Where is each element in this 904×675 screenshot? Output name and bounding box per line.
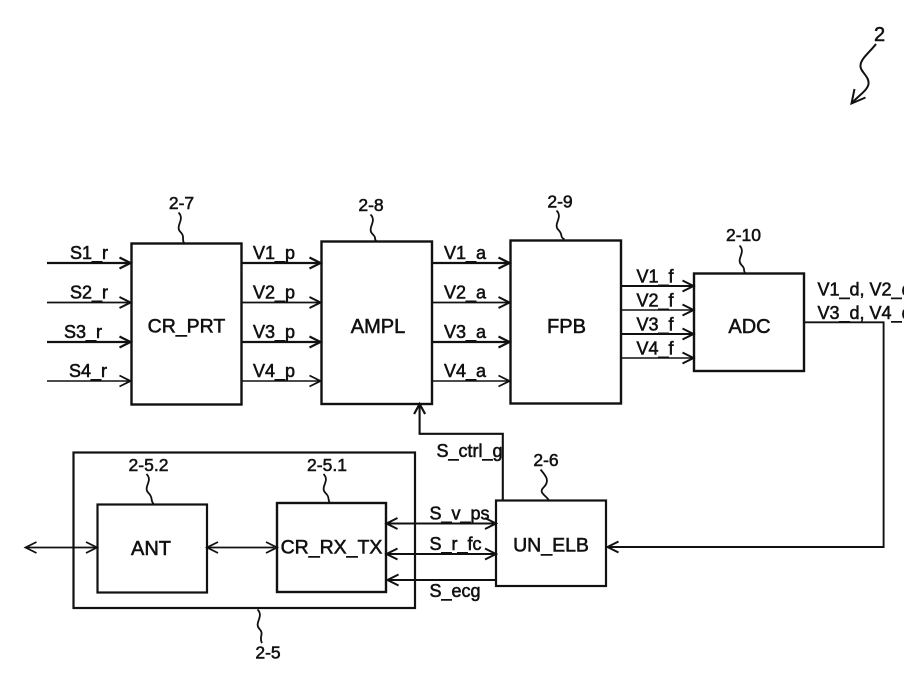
arrowhead S_v_ps left xyxy=(387,518,398,529)
arrowhead V3_p xyxy=(310,337,321,348)
svg-text:FPB: FPB xyxy=(547,316,586,338)
wire V4_a xyxy=(432,380,508,382)
leader squiggle 2-5.1 xyxy=(324,474,331,503)
wire V4_p xyxy=(242,380,320,382)
svg-text:S3_r: S3_r xyxy=(64,322,102,343)
svg-text:V3_d, V4_d: V3_d, V4_d xyxy=(818,303,904,324)
arrowhead S1_r xyxy=(120,258,131,269)
arrowhead S4_r xyxy=(120,376,131,387)
svg-text:V3_a: V3_a xyxy=(444,322,487,343)
block AMPL xyxy=(322,242,433,405)
svg-text:V2_p: V2_p xyxy=(253,283,295,304)
block FPB xyxy=(511,241,622,404)
arrowhead V4_f xyxy=(683,353,694,364)
arrowhead S_r_fc right xyxy=(485,549,496,560)
leader squiggle 2-9 xyxy=(557,211,565,240)
svg-text:S_r_fc: S_r_fc xyxy=(430,534,482,555)
wire S_v_ps xyxy=(388,523,495,525)
arrowhead S2_r xyxy=(120,297,131,308)
block UN_ELB xyxy=(496,501,606,587)
leader squiggle 2-6 xyxy=(541,470,550,501)
svg-text:ADC: ADC xyxy=(728,316,770,338)
svg-text:V1_p: V1_p xyxy=(253,243,295,264)
svg-text:V2_f: V2_f xyxy=(637,291,675,312)
leader squiggle 2-7 xyxy=(179,213,185,244)
arrowhead CR_RX_TX side xyxy=(266,542,277,553)
svg-text:CR_PRT: CR_PRT xyxy=(148,316,226,338)
arrowhead S_r_fc left xyxy=(387,549,398,560)
svg-text:S4_r: S4_r xyxy=(69,361,107,382)
block outer 2-5 xyxy=(74,453,416,609)
arrowhead antenna external left xyxy=(26,542,37,553)
svg-text:2-5.1: 2-5.1 xyxy=(307,455,347,475)
wire antenna external xyxy=(27,547,96,549)
wire S_ctrl_g xyxy=(420,406,503,501)
wire V1_a xyxy=(432,262,508,264)
arrowhead V_d into UN_ELB xyxy=(608,542,619,553)
arrowhead V1_a xyxy=(499,258,510,269)
svg-text:UN_ELB: UN_ELB xyxy=(513,535,589,557)
wire V4_f xyxy=(621,357,692,359)
wire S4_r xyxy=(47,380,129,382)
arrowhead V3_a xyxy=(499,337,510,348)
arrowhead S_v_ps right xyxy=(485,518,496,529)
arrowhead V1_p xyxy=(310,258,321,269)
wire V2_p xyxy=(242,302,320,304)
leader arrow for figure ref 2 xyxy=(853,44,877,103)
wire S1_r xyxy=(47,262,129,264)
wire V2_f xyxy=(621,309,692,311)
arrowhead V2_p xyxy=(310,297,321,308)
svg-text:2-6: 2-6 xyxy=(533,450,558,470)
svg-text:V4_a: V4_a xyxy=(444,361,487,382)
block ANT xyxy=(98,505,208,593)
svg-text:2-8: 2-8 xyxy=(358,195,383,215)
svg-text:V4_f: V4_f xyxy=(637,339,675,360)
arrowhead S_ctrl_g into AMPL xyxy=(414,404,425,414)
svg-text:S_v_ps: S_v_ps xyxy=(430,504,490,525)
arrowhead V4_p xyxy=(310,376,321,387)
svg-text:S2_r: S2_r xyxy=(70,283,108,304)
leader squiggle 2-8 xyxy=(371,215,377,242)
wire V1_p xyxy=(242,262,320,264)
svg-text:2-10: 2-10 xyxy=(726,225,761,245)
block ADC xyxy=(694,274,804,372)
svg-text:2-7: 2-7 xyxy=(169,193,194,213)
svg-text:S_ctrl_g: S_ctrl_g xyxy=(437,441,503,462)
wire S_ecg xyxy=(388,579,496,581)
wire ANT to CR_RX_TX xyxy=(209,547,275,549)
arrowhead V3_f xyxy=(683,329,694,340)
svg-text:AMPL: AMPL xyxy=(351,316,405,338)
arrowhead V2_f xyxy=(683,305,694,316)
svg-text:V1_d, V2_d: V1_d, V2_d xyxy=(818,280,904,301)
svg-text:V3_p: V3_p xyxy=(253,322,295,343)
arrowhead V2_a xyxy=(499,297,510,308)
svg-text:2-5: 2-5 xyxy=(255,643,280,663)
wire V3_a xyxy=(432,341,508,343)
wire S3_r xyxy=(47,341,129,343)
arrowhead S_ecg left xyxy=(388,575,399,586)
svg-text:CR_RX_TX: CR_RX_TX xyxy=(281,537,383,559)
arrowhead V4_a xyxy=(499,376,510,387)
wire V3_p xyxy=(242,341,320,343)
wire S2_r xyxy=(47,302,129,304)
svg-text:V4_p: V4_p xyxy=(253,361,295,382)
svg-text:V2_a: V2_a xyxy=(444,283,487,304)
svg-text:2: 2 xyxy=(874,24,885,46)
wire V3_f xyxy=(621,333,692,335)
arrowhead ANT side xyxy=(207,542,218,553)
svg-text:ANT: ANT xyxy=(131,538,171,560)
svg-text:2-5.2: 2-5.2 xyxy=(129,455,169,475)
svg-text:V3_f: V3_f xyxy=(637,315,675,336)
block CR_PRT xyxy=(132,244,242,405)
svg-text:V1_a: V1_a xyxy=(444,243,487,264)
wire S_r_fc xyxy=(388,553,495,555)
wire V2_a xyxy=(432,302,508,304)
arrowhead antenna external right xyxy=(86,542,97,553)
arrowhead figure ref 2 xyxy=(852,89,866,104)
leader squiggle 2-5 xyxy=(258,610,263,644)
leader squiggle 2-5.2 xyxy=(147,474,154,504)
svg-text:S_ecg: S_ecg xyxy=(430,581,481,602)
block CR_RX_TX xyxy=(277,503,386,592)
svg-text:S1_r: S1_r xyxy=(70,243,108,264)
leader squiggle 2-10 xyxy=(740,246,746,274)
arrowhead V1_f xyxy=(683,281,694,292)
svg-text:V1_f: V1_f xyxy=(637,267,675,288)
wire V1_f xyxy=(621,285,692,287)
wire ADC output V_d feedback xyxy=(609,322,884,547)
arrowhead S3_r xyxy=(120,337,131,348)
svg-text:2-9: 2-9 xyxy=(547,192,572,212)
